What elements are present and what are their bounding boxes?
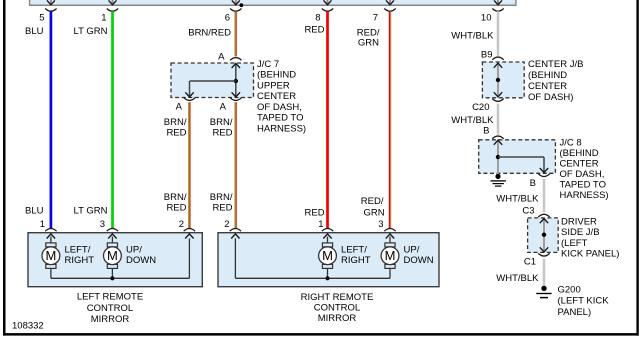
wire RED/GRN pin 7 [389,11,390,228]
connector arc C1 exit [538,253,549,256]
wire BRN/RED pin 6 upper segment [235,11,236,56]
svg-text:SIDE J/B: SIDE J/B [561,227,600,238]
svg-text:CONTROL: CONTROL [87,303,133,314]
pin number 1 [101,12,106,23]
connector arc right mirror pin 3 [384,229,395,232]
svg-text:BLU: BLU [25,205,44,216]
mirror control switch box (cut off at top) [29,0,517,6]
label A (J/C 7 entry) [218,52,225,63]
label BLU lower [25,205,44,216]
svg-text:LEFT REMOTE: LEFT REMOTE [77,292,143,303]
connector arc J/C 7 entry A [230,58,241,61]
svg-text:5: 5 [39,12,44,23]
wire WHT/BLK G200 segment [543,258,546,286]
connector arc pin 10 [492,9,503,12]
note DRIVER SIDE J/B location [561,216,619,259]
wire WHT/BLK pin 10 upper segment [497,11,500,56]
connector arc pin 8 [322,9,333,12]
border frame bottom [3,333,639,336]
svg-text:HARNESS): HARNESS) [560,190,609,201]
svg-text:WHT/BLK: WHT/BLK [496,273,539,284]
label C3 [522,206,534,217]
svg-text:J/C 8: J/C 8 [560,137,582,148]
label BRN/RED left lower [164,192,187,214]
svg-text:OF DASH): OF DASH) [528,92,573,103]
svg-text:6: 6 [225,12,230,23]
svg-text:2: 2 [224,219,229,230]
label B (J/C 8 entry) [483,126,489,137]
connector arc J/C 8 entry B [492,136,503,139]
connector arc J/C 8 exit B [538,174,549,177]
pin number 3 (left mirror) [100,219,105,230]
pin number 6 [225,12,230,23]
svg-text:C1: C1 [524,257,536,268]
svg-text:WHT/BLK: WHT/BLK [451,30,494,41]
svg-text:(BEHIND: (BEHIND [560,148,599,159]
pin number 3 (right mirror) [378,219,383,230]
pin number 1 (left mirror) [40,219,45,230]
svg-text:BRN/: BRN/ [164,117,187,128]
svg-text:UP/: UP/ [404,245,420,256]
label G200 [558,284,610,318]
pin number 8 [315,12,320,23]
svg-text:BRN/: BRN/ [210,117,233,128]
svg-text:UPPER: UPPER [257,80,290,91]
svg-text:GRN: GRN [358,37,379,48]
DRIVER SIDE J/B internal wire [540,219,548,252]
right mirror internal bus wire [231,234,390,278]
connector arc pin 5 [45,9,56,12]
svg-text:LT GRN: LT GRN [74,205,108,216]
border frame left [3,0,6,336]
svg-text:7: 7 [373,12,378,23]
label LEFT/RIGHT (left mirror) [65,245,95,266]
pin number 5 [39,12,44,23]
svg-text:C3: C3 [522,206,534,217]
svg-text:(LEFT: (LEFT [561,238,588,249]
svg-text:RED: RED [304,25,324,36]
svg-text:DOWN: DOWN [404,255,434,266]
svg-text:J/C 7: J/C 7 [257,59,279,70]
svg-text:3: 3 [100,219,105,230]
svg-text:RIGHT: RIGHT [341,255,371,266]
label BRN/RED left upper [164,117,187,139]
pin number 1 (right mirror) [318,219,323,230]
svg-text:TAPED TO: TAPED TO [257,113,303,124]
wire BRN/RED right branch [235,102,236,228]
svg-text:RED: RED [212,127,232,138]
svg-text:RED: RED [212,202,232,213]
CENTER J/B junction dot [496,78,500,82]
label WHT/BLK (G200) [496,273,539,284]
svg-text:8: 8 [315,12,320,23]
connector arc right mirror pin 1 [322,229,333,232]
label LT GRN top [74,26,108,37]
label UP/DOWN (left mirror) [126,245,156,266]
label RED/GRN lower [361,196,385,219]
svg-text:M: M [322,248,333,263]
connector arc J/C 7 left exit A [184,98,195,101]
label WHT/BLK (C20) [451,115,494,126]
svg-text:WHT/BLK: WHT/BLK [496,193,539,204]
svg-text:2: 2 [179,219,184,230]
svg-text:KICK PANEL): KICK PANEL) [561,249,619,260]
left remote control mirror box [28,233,202,287]
connector arc B9 entry [492,57,503,60]
wire BLU pin 5 [50,11,53,228]
border frame right [636,0,638,336]
svg-text:LEFT/: LEFT/ [65,245,91,256]
switch box arrow pin 7 [386,0,394,5]
note J/C 7 location [257,59,306,135]
label RED lower [305,208,325,219]
label A (J/C 7 right exit) [220,102,227,113]
connector arc J/C 7 right exit A [230,98,241,101]
svg-text:(BEHIND: (BEHIND [528,70,567,81]
svg-text:A: A [176,102,183,113]
svg-text:WHT/BLK: WHT/BLK [451,115,494,126]
svg-text:B: B [530,178,536,189]
svg-text:A: A [220,102,227,113]
svg-text:10: 10 [481,12,492,23]
svg-text:RED/: RED/ [361,196,384,207]
svg-text:BRN/: BRN/ [164,192,187,203]
svg-text:MIRROR: MIRROR [318,313,357,324]
label RED top [304,25,324,36]
label WHT/BLK top [451,30,494,41]
switch box arrow pin 5 [47,0,55,5]
junction box CENTER J/B [482,62,524,98]
diagram number 108332 [12,321,44,332]
svg-text:UP/: UP/ [126,245,142,256]
junction block J/C 8 [479,140,556,174]
junction block J/C 7 [171,63,254,98]
label C1 [524,257,536,268]
svg-text:(LEFT KICK: (LEFT KICK [558,296,610,307]
svg-text:BRN/RED: BRN/RED [188,28,231,39]
svg-text:1: 1 [318,219,323,230]
svg-text:M: M [385,248,396,263]
svg-text:GRN: GRN [363,208,384,219]
svg-text:HARNESS): HARNESS) [257,123,306,134]
CENTER J/B internal wire [494,63,502,97]
pin number 7 [373,12,378,23]
pin number 10 [481,12,492,23]
svg-text:RED: RED [305,208,325,219]
caption left remote control mirror [77,292,143,325]
svg-text:PANEL): PANEL) [558,307,592,318]
svg-text:LT GRN: LT GRN [74,26,108,37]
J/C 7 down arrow right exit [232,92,240,97]
label BRN/RED right lower [210,192,233,214]
switch box arrow pin 8 [324,0,332,5]
DRIVER SIDE J/B junction dot [542,233,546,237]
label LEFT/RIGHT (right mirror) [341,245,371,266]
connector arc pin 7 [384,9,395,12]
label UP/DOWN (right mirror) [404,245,434,266]
svg-text:CENTER J/B: CENTER J/B [528,59,583,70]
note CENTER J/B location [528,59,583,103]
connector arc right mirror pin 2 [230,229,241,232]
right mirror bus junction dot [325,276,329,280]
label B (J/C 8 exit) [530,178,536,189]
left mirror internal bus wire [51,234,194,278]
pin number 2 (right mirror) [224,219,229,230]
motor M1 left/right (left mirror) [42,234,60,278]
connector arc C20 exit [492,99,503,102]
svg-text:BRN/: BRN/ [210,192,233,203]
svg-text:RIGHT: RIGHT [65,255,95,266]
ground G200 [536,286,551,298]
wire WHT/BLK C20 segment [497,104,500,135]
label BLU top [25,26,44,37]
svg-text:OF DASH,: OF DASH, [257,102,302,113]
J/C 7 junction dot [234,79,238,83]
svg-text:CONTROL: CONTROL [314,302,360,313]
J/C 8 down arrow exit B [540,168,548,173]
motor M4 up/down (right mirror) [381,234,399,278]
wire BRN/RED left branch [189,102,190,228]
wire LT GRN pin 1 [111,11,114,228]
connector arc left mirror pin 2 [184,229,195,232]
svg-text:DOWN: DOWN [126,255,156,266]
connector arc left mirror pin 3 [107,229,118,232]
svg-text:BLU: BLU [25,26,44,37]
connector arc C3 entry [538,214,549,217]
svg-text:A: A [218,52,225,63]
svg-text:3: 3 [378,219,383,230]
J/C 8 internal wire vertical [494,140,502,175]
svg-text:CENTER: CENTER [257,91,296,102]
wire WHT/BLK C3 segment [543,179,546,212]
svg-text:108332: 108332 [12,321,44,332]
switch box arrow pin 6 [232,0,240,5]
svg-text:RED: RED [166,202,186,213]
connector arc pin 1 [107,9,118,12]
svg-text:M: M [45,248,56,263]
J/C 7 internal branch wire [190,81,236,97]
J/C 8 internal branch wire [498,157,544,173]
J/C 7 internal wire vertical [232,63,240,97]
J/C 8 junction dot [496,155,500,159]
svg-text:MIRROR: MIRROR [91,314,130,325]
switch box arrow pin 10 [494,0,502,5]
svg-text:1: 1 [101,12,106,23]
connector arc left mirror pin 1 [45,229,56,232]
left mirror bus junction dot [110,276,114,280]
switch box junction dot pin 6 [240,3,244,7]
svg-text:CENTER: CENTER [528,81,567,92]
label BRN/RED right upper [210,117,233,139]
label WHT/BLK (C3) [496,193,539,204]
svg-text:TAPED TO: TAPED TO [560,179,606,190]
switch box arrow pin 1 [109,0,117,5]
svg-text:B9: B9 [481,50,493,61]
svg-text:DRIVER: DRIVER [561,216,597,227]
svg-text:1: 1 [40,219,45,230]
svg-text:B: B [483,126,489,137]
label B9 [481,50,493,61]
junction box DRIVER SIDE J/B [528,218,559,253]
ground at J/C 8 [491,174,506,186]
note J/C 8 location [560,137,609,201]
svg-text:C20: C20 [472,102,489,113]
label A (J/C 7 left exit) [176,102,183,113]
motor M2 up/down (left mirror) [104,234,122,278]
svg-text:RED: RED [166,127,186,138]
wire RED pin 8 [326,11,329,228]
connector arc pin 6 [230,9,241,12]
right remote control mirror box [218,233,439,287]
svg-text:G200: G200 [558,284,581,295]
svg-text:LEFT/: LEFT/ [341,245,367,256]
caption right remote control mirror [301,292,374,324]
svg-text:(BEHIND: (BEHIND [257,70,296,81]
label C20 [472,102,489,113]
motor M3 left/right (right mirror) [319,234,337,278]
svg-text:RIGHT REMOTE: RIGHT REMOTE [301,292,374,303]
J/C 7 down arrow left exit [185,92,193,97]
svg-text:OF DASH,: OF DASH, [560,169,605,180]
svg-text:M: M [107,248,118,263]
label LT GRN lower [74,205,108,216]
label BRN/RED top [188,28,231,39]
label RED/GRN top [357,28,380,49]
pin number 2 (left mirror) [179,219,184,230]
svg-text:CENTER: CENTER [560,158,599,169]
